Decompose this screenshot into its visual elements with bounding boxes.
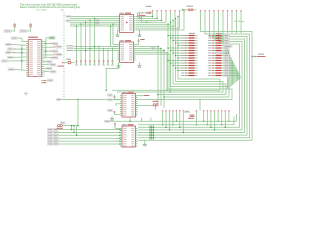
wire Q3 down [155, 106, 157, 110]
net flag NF1 [252, 56, 254, 58]
wire risers to U2 [110, 26, 112, 46]
wire U1 riser a [137, 13, 139, 17]
resistor R33 [208, 72, 223, 73]
net label box BUSAK [46, 67, 52, 70]
polarized capacitor C10 at U2 [138, 40, 140, 41]
fuse F2 [30, 24, 31, 27]
junction dots on collector [45, 43, 47, 45]
svg-text:5V: 5V [61, 10, 66, 12]
U2 reference label [120, 40, 125, 41]
ground GND4 below U2 [138, 64, 142, 68]
bus wire A7 with pin chevron [183, 10, 184, 11]
red flag [141, 17, 143, 19]
wire osc left [183, 9, 188, 11]
ground GND5 [110, 117, 114, 121]
net label box R26 [224, 54, 230, 56]
net label box R21 [224, 42, 230, 44]
diode D3 below IC1 [41, 80, 44, 82]
wire loop L1-1 [176, 82, 224, 93]
resistor R28 [208, 60, 223, 61]
wire riser and capacitor C5 [94, 18, 96, 61]
wire bus H2 line 1 (VCC) [74, 46, 118, 48]
wire osc right [193, 9, 196, 11]
junction dots bus A [152, 16, 154, 18]
net label box U4-4a [48, 140, 53, 142]
bus wire B1 long loop [204, 10, 205, 11]
wire U2 to vertical k1 [136, 46, 159, 104]
wire to net flag [251, 56, 254, 58]
net label box A10 [2, 60, 8, 62]
wire bus H2 line 3 [74, 50, 118, 52]
wire from flag down [142, 19, 153, 23]
wire feed tap to R11 [168, 60, 186, 62]
wire bus H1 line 1 [70, 16, 117, 18]
resistor R20 [208, 40, 223, 41]
bus wire B0 long loop [200, 10, 201, 11]
resistor R7 [181, 50, 197, 51]
wire bus B1 line 4 [164, 96, 229, 98]
resistor R6 [181, 47, 197, 48]
svg-text:rev 1.0 2019: rev 1.0 2019 [36, 8, 47, 11]
wire U3 pins left [116, 104, 120, 106]
net label box M1 [52, 57, 58, 60]
wire U2 to vertical k3 [136, 50, 165, 108]
wire U2 to vertical k2 [136, 48, 162, 106]
IC IC1 (CPU) [26, 40, 43, 77]
LED D4 [68, 61, 71, 64]
net label box RD [52, 50, 58, 53]
junction dots [21, 48, 23, 50]
wire column feed F0 [167, 24, 169, 89]
net label box U4-5a [48, 143, 53, 145]
bus wire A2 with pin chevron [161, 10, 162, 11]
bus wire B8 with pin chevron [236, 10, 237, 11]
bus tap T4 [176, 110, 177, 111]
oscillator X2 [57, 125, 62, 127]
wire R30 staircase [229, 66, 235, 84]
bus wire B9 with pin chevron [240, 10, 241, 11]
net label box U3-a [108, 94, 113, 96]
svg-text:PC14 inp: PC14 inp [234, 21, 245, 23]
ground GND3 below U2 [117, 64, 121, 68]
wire feed tap to R2 [171, 37, 187, 39]
X2 value text [57, 128, 64, 129]
net label box H1-c [95, 19, 100, 21]
net label box H1-a [66, 15, 71, 17]
ground GND1 below U1 [116, 33, 120, 37]
net label box R32 [224, 69, 230, 71]
wire U4 right bundle 0 [149, 125, 151, 141]
wire U4 left row 1 [58, 131, 120, 133]
net label box for D3 [48, 79, 54, 82]
net label GND box [151, 47, 156, 49]
resistor R13 [181, 65, 197, 66]
wire bus B1 line 1 [112, 89, 220, 91]
wire R27 staircase [229, 58, 231, 86]
net label box A14 [6, 43, 12, 45]
capacitor C11 at U3 left [114, 97, 116, 98]
resistor R9 [181, 55, 197, 56]
net label box U4-2a [48, 134, 53, 136]
IC U2 [118, 42, 136, 63]
wire to IC1 pin 6 [11, 52, 26, 54]
wire crystal left [143, 12, 146, 14]
bus wire B6 with pin chevron [227, 10, 228, 11]
net label box WR [56, 53, 62, 56]
bus tap T6 [183, 110, 184, 111]
bus wire B2 long loop [209, 10, 210, 11]
resistor R4 [181, 42, 197, 43]
collector wire right of IC1 [45, 43, 47, 57]
net label box U4-0a [48, 128, 53, 130]
resistor R5 [181, 45, 197, 46]
H2 junction dots [94, 46, 96, 48]
resistor R31 [208, 67, 223, 68]
net label box R28 [224, 59, 230, 61]
wire crystal top link [138, 12, 143, 14]
net label box CLK [8, 68, 14, 71]
wire riser and capacitor C3 [85, 22, 87, 61]
net label box R31 [224, 67, 230, 69]
net label box R33 [224, 72, 230, 74]
LED D4 name text [66, 59, 71, 60]
D3 value text [42, 82, 47, 83]
wire loop L1-3 [171, 87, 230, 98]
net label box U4-0b [53, 128, 58, 130]
U1 reference label [120, 13, 125, 14]
resistor R18 [208, 35, 223, 36]
resistor R8 [181, 52, 197, 53]
capacitor C12 at U3 lower left [114, 112, 116, 113]
dashed net divider line [63, 12, 65, 100]
net label box R20 [224, 39, 230, 41]
LED D4 value text [58, 66, 65, 67]
wire bus H1 line 6 [70, 25, 117, 27]
wire U4 left row 3 [58, 137, 120, 139]
net label box H1-b [66, 20, 71, 22]
resistor R17 [181, 75, 197, 76]
net label box R27 [224, 57, 230, 59]
wire U3 bottom to bus [129, 117, 131, 121]
wire bus B1 line 2 [117, 91, 223, 93]
IC1 reference label [28, 37, 38, 38]
svg-text:Based on schematic by the Z80: Based on schematic by the Z80 team and t… [20, 6, 81, 9]
wire column feed F4 [177, 17, 179, 80]
wire loop L1-0 [178, 79, 220, 90]
resistor R11 [181, 60, 197, 61]
bus tap T2 [169, 110, 170, 111]
net label box left B1 [57, 98, 61, 100]
wire column feed F2 [172, 20, 174, 84]
wire to IC1 pin 8 [13, 56, 26, 59]
reset net red text [139, 15, 146, 16]
fuse F1 [14, 24, 15, 27]
wire R32 staircase [229, 71, 237, 82]
wire R25 staircase [228, 53, 230, 88]
wire bus B2 line L0 [110, 120, 237, 122]
wire JP1 to F1 [11, 27, 15, 31]
net label box U4-4b [53, 140, 58, 142]
resistor R29 [208, 62, 223, 63]
resistor R19 [208, 37, 223, 38]
wire loop L1-2 [173, 84, 226, 95]
resistor network RN2 header [216, 33, 222, 34]
net label box IORQ [56, 46, 62, 49]
bus riser wire left of IC1 [21, 44, 23, 69]
wire U4 right bundle 2 [152, 125, 154, 141]
net label box R34 [224, 74, 230, 76]
bus wire B3 long loop [213, 10, 214, 11]
wire riser and capacitor C1 [76, 26, 78, 61]
resistor R10 [181, 57, 197, 58]
bus tap T16 [228, 110, 229, 111]
net label box R30 [224, 64, 230, 66]
wire bus B1 line 5 [61, 99, 120, 101]
connector JP2 label [20, 30, 27, 33]
bus tap T1 [165, 110, 166, 111]
bus wire A3 with pin chevron [165, 10, 166, 11]
IC U3 [120, 94, 138, 118]
crystal Q1 [147, 12, 151, 14]
wire feed tap to R4 [176, 42, 187, 44]
bus wire A4 with pin chevron [170, 10, 171, 11]
wire + pin flag [43, 42, 50, 44]
junction dot and drop at x78 [77, 99, 79, 101]
wire X2 taps [71, 126, 73, 130]
wire U4 left row 4 [58, 140, 120, 142]
wire crystal right [151, 12, 152, 14]
connector JP1 label [4, 30, 11, 33]
net label VCC texts [67, 45, 74, 46]
net label box U4-3a [48, 137, 53, 139]
wire riser and capacitor C6 [98, 47, 100, 61]
net label box U4-5b [53, 143, 58, 145]
ground GND2 below U1 [138, 33, 142, 37]
wire U-corner under U3 [141, 118, 143, 122]
U4 reference label [122, 124, 127, 125]
wire to IC1 pin 15 [14, 68, 26, 71]
wire feed tap to R9 [176, 55, 187, 57]
wire bus H1 line 4 [70, 21, 117, 23]
net label box R22 [224, 44, 230, 46]
wire feed tap to R12 [171, 62, 187, 64]
resistor R24 [208, 50, 223, 51]
net label box L0 [105, 120, 110, 122]
resistor R32 [208, 70, 223, 71]
bus tap T7 [196, 110, 197, 111]
net label box R29 [224, 62, 230, 64]
IC1 pin numbers right [44, 40, 45, 43]
wire R24 staircase [228, 51, 230, 90]
net label box A12 [6, 51, 12, 53]
wire Q3 left [136, 105, 153, 107]
net label box MREQ [52, 43, 58, 46]
bus tap T13 [217, 110, 218, 111]
bus wire A1 with pin chevron [156, 10, 157, 11]
bus wire B5 long loop [222, 10, 223, 11]
wire to LED D4 [64, 62, 69, 64]
oscillator X1 [188, 9, 193, 11]
wire to IC1 pin 4 [13, 48, 26, 50]
wire bus H1 line 5 [70, 23, 117, 25]
bus tap T11 [210, 110, 211, 111]
wire to IC1 pin 2 [11, 43, 26, 46]
net label box R24 [224, 49, 230, 51]
wire U2 right extra [136, 52, 168, 90]
corner wire x106 [106, 66, 118, 90]
wire column feed F3 [175, 18, 177, 81]
resistor R12 [181, 62, 197, 63]
net label box U4-1b [53, 131, 58, 133]
wire feed tap to R8 [173, 52, 186, 54]
resistor R2 [181, 37, 197, 38]
IC U1 [118, 15, 136, 33]
wire feed tap to R15 [178, 70, 186, 72]
transistor Q3 [153, 104, 158, 106]
diode D2 [13, 52, 15, 54]
wire loop L1-4 [168, 89, 232, 100]
wire feed tap to R3 [173, 40, 186, 42]
wire U4 right bundle 1 [151, 125, 153, 141]
diode D1 [14, 48, 16, 50]
capacitor C13 at U4 top left [114, 124, 116, 125]
transistor Q2 [190, 115, 194, 117]
wire U4 left row 5 [58, 143, 120, 145]
bus tap T9 [203, 110, 204, 111]
junction dot and drop at x200 [199, 99, 201, 101]
wire riser and capacitor C7 [103, 49, 105, 61]
wire bus H2 line 2 [74, 48, 118, 50]
resistor R14 [181, 67, 197, 68]
wire U3 right pin long (line5 east) [136, 99, 232, 101]
resistor R23 [208, 47, 223, 48]
net label box RFSH [46, 61, 52, 64]
bus tap T15 [225, 110, 226, 111]
net label box H1-d [95, 23, 100, 25]
resistor R26 [208, 55, 223, 56]
wire U1 riser b [139, 13, 141, 19]
wire column feed F1 [170, 22, 172, 86]
resistor R27 [208, 57, 223, 58]
bus tap T5 [179, 110, 180, 111]
wire X2 right [63, 125, 78, 127]
net label box U3-c [108, 109, 113, 111]
U3 right crystal net text [144, 95, 150, 96]
bus tap T0 [162, 110, 163, 111]
net label box U3-b [108, 99, 113, 101]
wire R33 staircase [229, 73, 239, 80]
bus wire B4 long loop [218, 10, 219, 11]
wire feed tap to R13 [173, 65, 186, 67]
resistor network RN1 header [189, 33, 195, 34]
wire feed tap to R1 [168, 35, 186, 37]
junction dots on verticals [157, 46, 159, 48]
wire feed tap to R7 [171, 50, 187, 52]
wire riser and capacitor C2 [80, 24, 82, 61]
wire RESET to IC1 [17, 37, 22, 39]
resistor R3 [181, 40, 197, 41]
wire bus B2 line L1 [138, 124, 234, 126]
net label box R18 [224, 34, 230, 36]
wire R26 staircase [228, 56, 231, 88]
wire bus H1 line 3 [70, 19, 117, 21]
wire R28 staircase [229, 61, 232, 86]
net label box U4-2b [53, 134, 58, 136]
resistor R15 [181, 70, 197, 71]
wire feed tap to R14 [176, 67, 187, 69]
wire R31 staircase [229, 68, 236, 82]
bus wire A5 with pin chevron [174, 10, 175, 11]
wire R34 staircase [229, 76, 240, 80]
wire feed tap to R5 [178, 45, 186, 47]
wire to IC1 pin 10 [7, 60, 26, 62]
net label box R19 [224, 37, 230, 39]
junction dots mid right [225, 52, 227, 54]
net label box WAIT [50, 71, 56, 74]
jumper JP3 in tap row [185, 111, 190, 113]
wire JP2 to F2 [27, 27, 31, 31]
wide net label box IDE2 [217, 52, 229, 54]
bus tap T14 [221, 110, 222, 111]
wire U3 to crystal net [136, 95, 143, 97]
bus wire B7 with pin chevron [231, 10, 232, 11]
bus wire A6 with pin chevron [179, 10, 180, 11]
wire riser and capacitor C9 [112, 49, 114, 61]
net label box R25 [224, 52, 230, 54]
X2 name label [60, 122, 65, 124]
bus tap T12 [214, 110, 215, 111]
U3 reference label [122, 92, 127, 93]
net label box U4-1a [48, 131, 53, 133]
green net flag VCC [49, 37, 55, 39]
net label box RESET [11, 37, 17, 39]
wire IC1 pin to VCC flag [43, 38, 49, 42]
sheet origin cross [24, 92, 28, 96]
wire B2 right risers [236, 114, 238, 121]
resistor R1 [181, 35, 197, 36]
wire R29 staircase [229, 63, 234, 84]
wide net label box IDE [224, 45, 233, 47]
wire U2 right extra 2 [136, 54, 171, 92]
resistor R16 [181, 72, 197, 73]
resistor R21 [208, 42, 223, 43]
net label box A13 [8, 48, 14, 50]
bus tap T10 [207, 110, 208, 111]
wire U4 left row 0 [58, 129, 120, 131]
wire bus B1 line 3 [158, 94, 226, 96]
wire riser and capacitor C4 [89, 20, 91, 61]
U1 inner mark [126, 22, 128, 23]
wire feed tap to R6 [168, 47, 186, 49]
bus tap T3 [172, 110, 173, 111]
resistor R34 [208, 75, 223, 76]
net label box HALT [50, 64, 56, 67]
resistor R25 [208, 52, 223, 53]
net label box U4-3b [53, 137, 58, 139]
ground GND6 right of U4 [143, 142, 147, 146]
wire LED to first cap [71, 62, 75, 64]
wire bus H1 line 2 [70, 17, 117, 19]
net label box A11 [8, 56, 14, 58]
wire feed tap to R10 [178, 57, 186, 59]
IC U4 [120, 126, 138, 147]
resistor R30 [208, 65, 223, 66]
wire riser and capacitor C8 [107, 51, 109, 61]
wire U4 left row 2 [58, 134, 120, 136]
bus wire A0 with pin chevron [152, 10, 153, 11]
resistor R22 [208, 45, 223, 46]
net label box R23 [224, 47, 230, 49]
